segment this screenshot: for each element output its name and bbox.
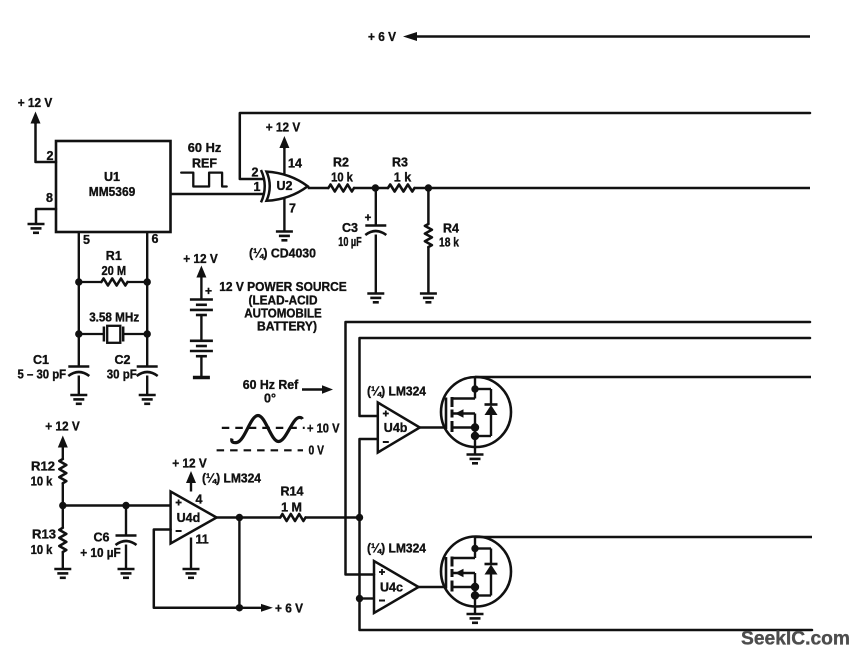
wire U4d output down to +6V node bbox=[238, 518, 240, 608]
svg-text:AUTOMOBILE: AUTOMOBILE bbox=[244, 307, 322, 321]
svg-text:+ 12 V: + 12 V bbox=[266, 121, 301, 135]
svg-text:8: 8 bbox=[46, 191, 53, 205]
svg-text:+ 12 V: + 12 V bbox=[183, 252, 218, 266]
XOR gate U2 (1/4 CD4030) bbox=[267, 172, 308, 201]
power +12V arrow at U2 bbox=[279, 136, 289, 148]
wire U4b - input down to bottom bus bbox=[360, 439, 813, 630]
svg-text:18 k: 18 k bbox=[439, 236, 459, 250]
svg-text:+ 10 V: + 10 V bbox=[307, 422, 340, 436]
svg-text:U4d: U4d bbox=[177, 511, 201, 525]
svg-text:12 V POWER SOURCE: 12 V POWER SOURCE bbox=[219, 280, 347, 294]
node U4c - input junction bbox=[356, 595, 363, 602]
resistor R3 1k bbox=[388, 185, 415, 192]
svg-text:U2: U2 bbox=[277, 179, 293, 193]
svg-text:4: 4 bbox=[196, 493, 203, 507]
svg-text:(¼) LM324: (¼) LM324 bbox=[367, 542, 426, 556]
svg-text:MM5369: MM5369 bbox=[89, 185, 136, 199]
resistor R14 1M bbox=[239, 516, 280, 518]
wire U1 pin6 down bbox=[146, 232, 148, 367]
wire U4d feedback to +6V node bbox=[154, 530, 240, 608]
capacitor C2 30pF bbox=[137, 365, 158, 368]
wire U4d pin11 to ground bbox=[190, 538, 192, 569]
svg-text:+ 6 V: + 6 V bbox=[275, 602, 304, 616]
svg-text:(LEAD-ACID: (LEAD-ACID bbox=[249, 294, 318, 308]
resistor R4 18k bbox=[427, 188, 430, 224]
wire MOSFET2 drain bus bbox=[475, 536, 812, 538]
wire U1 pin2 to +12V bbox=[36, 122, 57, 162]
svg-text:BATTERY): BATTERY) bbox=[257, 320, 317, 334]
svg-text:C3: C3 bbox=[342, 221, 358, 235]
svg-text:+ 10 µF: + 10 µF bbox=[80, 546, 121, 560]
svg-text:2: 2 bbox=[252, 166, 259, 180]
resistor R13 10k bbox=[62, 506, 64, 528]
wire bus corner to U4b + input bbox=[360, 338, 811, 416]
wire to +6V arrow bbox=[239, 607, 261, 609]
svg-text:+: + bbox=[205, 284, 212, 298]
ground under R13 bbox=[54, 568, 71, 571]
power +12V arrow at battery bbox=[196, 266, 206, 278]
power MOSFET Q1 bbox=[441, 377, 511, 447]
svg-text:10 k: 10 k bbox=[331, 171, 353, 185]
svg-text:0 V: 0 V bbox=[309, 444, 325, 458]
svg-text:R2: R2 bbox=[333, 156, 349, 170]
svg-text:11: 11 bbox=[196, 533, 209, 547]
resistor R2 10k bbox=[308, 187, 329, 190]
ground under C3 bbox=[367, 292, 384, 295]
capacitor C1 5-30pF bbox=[68, 365, 89, 368]
wire bus line from U2 pin2 loop bbox=[240, 113, 810, 179]
svg-text:20 M: 20 M bbox=[101, 264, 126, 278]
svg-text:60 Hz Ref: 60 Hz Ref bbox=[243, 378, 299, 392]
svg-text:3.58 MHz: 3.58 MHz bbox=[89, 311, 139, 325]
svg-text:R1: R1 bbox=[106, 249, 122, 263]
wire bus corner to U4c + input bbox=[346, 322, 811, 575]
wire U4c - input bbox=[360, 597, 375, 599]
wire U4b output to MOSFET gate bbox=[420, 426, 446, 428]
node C6 top junction bbox=[122, 502, 129, 509]
svg-text:1: 1 bbox=[254, 180, 261, 194]
power +12V arrow at U4d bbox=[186, 471, 196, 483]
node pin5-crystal junction bbox=[75, 330, 82, 337]
wire U2 vdd pin14 bbox=[283, 147, 285, 175]
wire +6V top rail with left arrowhead bbox=[403, 32, 417, 41]
node pin5-R1 junction bbox=[75, 278, 82, 285]
svg-text:+ 12 V: + 12 V bbox=[45, 420, 80, 434]
svg-text:10 k: 10 k bbox=[31, 543, 53, 557]
wire MOSFET1 drain bus bbox=[475, 376, 811, 378]
svg-text:R13: R13 bbox=[32, 528, 56, 542]
dashed line +10V level bbox=[222, 427, 305, 429]
svg-text:0°: 0° bbox=[264, 392, 276, 406]
svg-text:5 – 30 pF: 5 – 30 pF bbox=[18, 368, 67, 382]
node R3-R4 junction bbox=[425, 184, 432, 191]
svg-text:U4b: U4b bbox=[384, 421, 408, 435]
svg-text:(¼) CD4030: (¼) CD4030 bbox=[249, 247, 316, 261]
wire U1 pin5 down bbox=[78, 232, 80, 367]
wire U4d output bbox=[217, 516, 240, 518]
svg-text:R12: R12 bbox=[31, 460, 55, 474]
svg-text:+: + bbox=[365, 213, 372, 225]
svg-text:(¼) LM324: (¼) LM324 bbox=[367, 385, 426, 399]
svg-text:+ 12 V: + 12 V bbox=[18, 96, 53, 110]
power MOSFET Q2 bbox=[441, 537, 511, 607]
svg-text:R14: R14 bbox=[281, 485, 304, 499]
svg-text:C2: C2 bbox=[115, 353, 131, 367]
sine waveform 60Hz bbox=[232, 416, 303, 443]
ground at U4d pin11 bbox=[183, 568, 200, 571]
svg-text:SeekIC.com: SeekIC.com bbox=[741, 628, 850, 650]
node +6V feedback junction bbox=[236, 604, 243, 611]
node R2-R3-C3 junction bbox=[372, 184, 379, 191]
resistor R12 10k bbox=[62, 445, 64, 459]
svg-text:+ 12 V: + 12 V bbox=[172, 457, 207, 471]
node R12-R13 junction bbox=[59, 502, 66, 509]
capacitor C6 10uF bbox=[125, 506, 127, 536]
node U4d output junction bbox=[236, 514, 243, 521]
wire U4c output to MOSFET gate bbox=[419, 586, 447, 588]
node R14 to vertical bus junction bbox=[356, 514, 363, 521]
ground under R4 bbox=[420, 292, 437, 295]
svg-text:10 µF: 10 µF bbox=[338, 235, 362, 249]
ground under C2 bbox=[139, 394, 156, 397]
node pin6-R1 junction bbox=[144, 278, 151, 285]
wire U1 output to U2 input1 bbox=[171, 193, 264, 195]
wire U2 pin7 to ground bbox=[283, 198, 285, 231]
svg-text:R3: R3 bbox=[392, 156, 408, 170]
svg-text:C6: C6 bbox=[94, 531, 110, 545]
power +12V arrow at U1 bbox=[31, 112, 41, 124]
node pin6-crystal junction bbox=[144, 330, 151, 337]
ground under C6 bbox=[118, 568, 135, 571]
svg-text:1 M: 1 M bbox=[281, 501, 302, 515]
ground at U2 pin7 bbox=[276, 230, 293, 233]
ground under C1 bbox=[70, 394, 87, 397]
ground at U1 pin8 bbox=[28, 223, 45, 226]
op-amp U4b (1/4 LM324) bbox=[378, 403, 420, 453]
wire R12R13 node to U4d + input bbox=[63, 504, 171, 506]
IC U1 MM5369 box bbox=[56, 141, 171, 232]
svg-text:REF: REF bbox=[192, 157, 217, 171]
svg-text:U1: U1 bbox=[104, 170, 120, 184]
svg-text:10 k: 10 k bbox=[31, 475, 53, 489]
svg-text:1 k: 1 k bbox=[394, 171, 411, 185]
wire bus line from R3-R4 node bbox=[428, 187, 810, 190]
svg-text:14: 14 bbox=[288, 157, 302, 171]
svg-text:7: 7 bbox=[289, 202, 296, 216]
capacitor C3 10uF bbox=[375, 188, 377, 226]
square wave symbol bbox=[181, 173, 227, 187]
svg-text:(¼) LM324: (¼) LM324 bbox=[202, 472, 261, 486]
resistor R1 20M bbox=[79, 281, 102, 283]
power +12V arrow at R12 bbox=[58, 436, 68, 448]
svg-text:U4c: U4c bbox=[380, 581, 403, 595]
svg-text:+ 6 V: + 6 V bbox=[368, 30, 397, 44]
svg-text:5: 5 bbox=[83, 233, 90, 247]
svg-text:6: 6 bbox=[152, 232, 159, 246]
arrow right after 60Hz Ref label bbox=[302, 388, 326, 391]
wire U1 pin8 to ground bbox=[36, 209, 56, 223]
svg-text:R4: R4 bbox=[443, 222, 459, 236]
op-amp U4c (1/4 LM324) bbox=[374, 561, 419, 613]
svg-text:30 pF: 30 pF bbox=[107, 368, 137, 382]
svg-text:60 Hz: 60 Hz bbox=[188, 141, 222, 155]
op-amp U4d (1/4 LM324) bbox=[171, 492, 217, 544]
svg-text:C1: C1 bbox=[33, 353, 49, 367]
dashed line 0V level bbox=[217, 449, 303, 451]
